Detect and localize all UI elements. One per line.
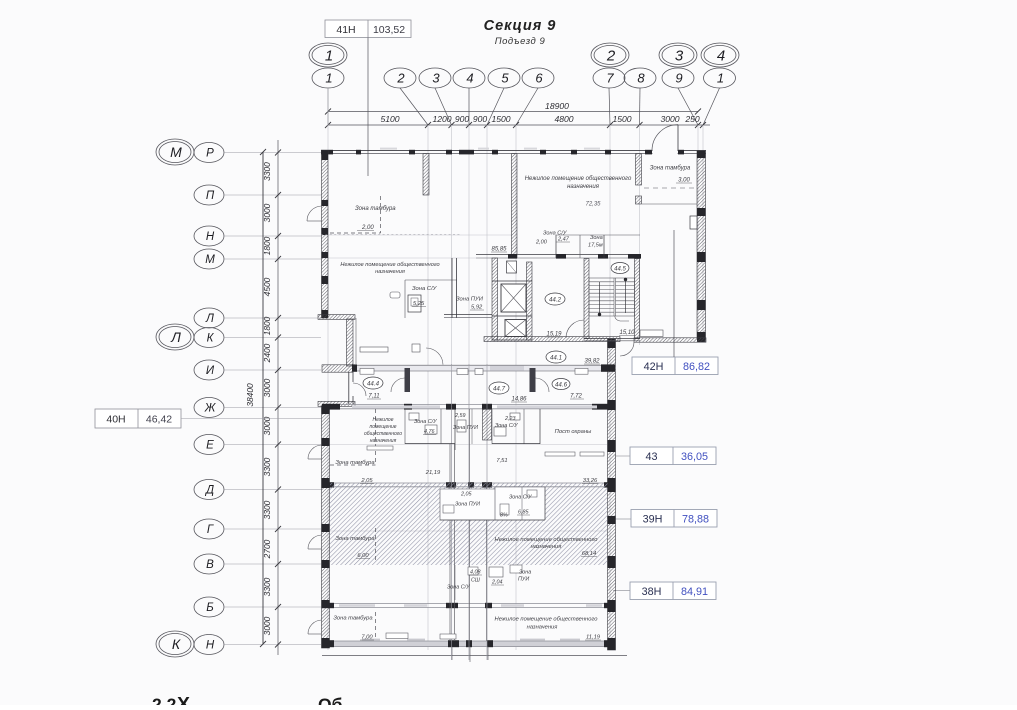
leader axis В <box>224 563 321 565</box>
svg-text:Зона С/У: Зона С/У <box>414 419 437 425</box>
axis bubble Ж <box>194 398 224 418</box>
room table 43 36,05 <box>630 447 716 465</box>
leader axis Е <box>224 444 321 446</box>
svg-text:2,23: 2,23 <box>504 416 516 422</box>
interior vertical walls lower half <box>449 444 451 641</box>
svg-text:Секция 9: Секция 9 <box>484 18 557 34</box>
leader axis 5 <box>487 88 504 125</box>
svg-text:назначения: назначения <box>370 438 397 444</box>
entrance door arcs lower left <box>308 445 322 459</box>
svg-text:86,82: 86,82 <box>683 361 710 373</box>
dashed zone line right tambour <box>644 187 694 189</box>
svg-text:7,11: 7,11 <box>368 394 379 400</box>
axis bubble Н <box>194 226 224 246</box>
unit 39Н wc cluster below hatch <box>454 565 456 600</box>
leader line from table 41Н into plan <box>367 38 369 177</box>
svg-text:8: 8 <box>637 71 645 86</box>
svg-text:84,91: 84,91 <box>681 586 708 598</box>
left dimension line overall <box>262 152 264 644</box>
svg-text:назначения: назначения <box>375 269 405 275</box>
svg-text:40Н: 40Н <box>106 414 125 426</box>
svg-text:11,19: 11,19 <box>586 635 601 641</box>
svg-text:6,00: 6,00 <box>357 553 369 559</box>
leader axis 1 <box>327 88 329 125</box>
ground line below bottom wall <box>322 655 627 657</box>
big axis bubble К <box>156 631 194 657</box>
svg-text:3000: 3000 <box>262 378 272 397</box>
svg-text:2,47: 2,47 <box>557 237 570 243</box>
svg-text:900: 900 <box>473 114 488 124</box>
svg-text:Нежилое помещение общественн: Нежилое помещение общественного <box>495 537 599 543</box>
faint horizontal axis lines <box>321 234 512 236</box>
svg-text:103,52: 103,52 <box>373 24 405 36</box>
radiator marks in corridor <box>360 347 388 352</box>
leader axis И <box>224 369 321 371</box>
faint vertical axis lines <box>327 88 329 650</box>
axis bubble Л <box>194 308 224 328</box>
svg-text:Пост охраны: Пост охраны <box>555 429 592 435</box>
svg-text:Об: Об <box>318 695 343 706</box>
svg-text:Л: Л <box>205 313 214 325</box>
small WC rooms upper right <box>555 235 557 258</box>
svg-text:38Н: 38Н <box>642 586 662 598</box>
room circle 44.2 <box>545 293 565 305</box>
dashed tambour zone 43 <box>375 409 377 465</box>
elevator cab 2 <box>505 320 526 337</box>
svg-text:4: 4 <box>717 47 725 64</box>
elevator cab 1 <box>501 284 526 312</box>
svg-text:Зона С/У: Зона С/У <box>495 423 518 429</box>
rooms row 44.4 / 44.7 / 44.6 <box>405 368 411 392</box>
svg-text:Нежилое помещение общественн: Нежилое помещение общественного <box>495 617 599 623</box>
leader axis Д <box>224 489 321 491</box>
sink symbol <box>390 292 400 298</box>
svg-text:39Н: 39Н <box>643 514 663 526</box>
axis bubble 2 <box>384 68 416 88</box>
svg-text:общественного: общественного <box>364 431 402 437</box>
leader axis 9 <box>678 88 698 125</box>
left wall notch (rows Л-Ж) <box>318 315 355 320</box>
svg-text:1800: 1800 <box>262 316 272 335</box>
stairs <box>584 259 589 339</box>
svg-text:ПУИ: ПУИ <box>518 577 529 583</box>
bottom wall of right section <box>634 338 706 342</box>
door arc room 44.2 <box>566 320 584 338</box>
svg-text:Зона ПУИ: Зона ПУИ <box>455 502 480 508</box>
room table 38Н 84,91 <box>630 582 716 600</box>
top dimension line overall <box>328 111 698 113</box>
svg-text:Ж: Ж <box>204 403 217 415</box>
axis bubble 9 <box>662 68 694 88</box>
svg-text:44.6: 44.6 <box>555 382 568 389</box>
entrance door left wall <box>307 206 322 221</box>
dashed tambour zone 38Н <box>375 612 377 638</box>
svg-text:Н: Н <box>206 231 215 243</box>
window sill marks on top wall <box>380 148 397 150</box>
wall between 39Н and 38Н <box>322 603 615 605</box>
svg-text:44.1: 44.1 <box>550 355 562 362</box>
svg-text:3000: 3000 <box>262 616 272 635</box>
svg-text:2400: 2400 <box>262 343 272 363</box>
svg-text:Нежилое помещение общественн: Нежилое помещение общественного <box>340 262 439 268</box>
radiator marks in hatch row <box>296 476 298 478</box>
big axis bubble 1 <box>309 43 347 67</box>
svg-text:68,14: 68,14 <box>582 551 597 557</box>
svg-text:4: 4 <box>466 71 473 86</box>
axis bubble 6 <box>522 68 554 88</box>
axis bubble Н <box>194 635 224 655</box>
svg-text:5,92: 5,92 <box>471 305 483 311</box>
WC room left middle <box>405 279 457 281</box>
svg-text:6,85: 6,85 <box>518 510 529 516</box>
svg-text:5,25: 5,25 <box>413 301 425 307</box>
svg-text:Х: Х <box>177 694 190 706</box>
svg-text:2,05: 2,05 <box>360 478 373 484</box>
elevator shaft walls <box>492 258 498 340</box>
dashed tambour zone top left <box>380 196 382 233</box>
svg-text:3: 3 <box>432 71 440 86</box>
axis bubble 3 <box>419 68 451 88</box>
big axis bubble М <box>156 139 194 165</box>
door gap in top wall <box>653 150 678 155</box>
svg-text:Зона тамбура: Зона тамбура <box>333 616 373 622</box>
svg-text:Зона тамбура: Зона тамбура <box>335 536 375 542</box>
svg-text:2: 2 <box>396 71 405 86</box>
svg-text:4500: 4500 <box>262 277 272 296</box>
svg-text:Л: Л <box>170 329 181 345</box>
room circle 44.1 corridor <box>546 351 566 363</box>
svg-text:М: М <box>170 144 182 160</box>
tick marks top dims <box>325 122 331 128</box>
room table 39Н 78,88 <box>631 510 717 528</box>
svg-text:38400: 38400 <box>245 383 255 407</box>
left exterior wall lower <box>322 406 330 648</box>
left exterior wall upper <box>322 151 329 318</box>
svg-text:назначения: назначения <box>527 625 558 631</box>
svg-text:7,00: 7,00 <box>361 635 373 641</box>
svg-text:3000: 3000 <box>660 114 679 124</box>
axis bubble И <box>194 360 224 380</box>
svg-text:4,76: 4,76 <box>424 429 435 435</box>
radiator marks unit 43 <box>367 446 393 450</box>
leader axis Р <box>224 152 321 154</box>
svg-text:Б: Б <box>206 602 214 614</box>
svg-text:8%: 8% <box>500 513 508 519</box>
svg-text:3000: 3000 <box>262 416 272 435</box>
svg-text:назначения: назначения <box>567 184 600 190</box>
axis bubble 1 <box>704 68 736 88</box>
svg-text:44.5: 44.5 <box>614 267 626 273</box>
svg-text:Нежилое: Нежилое <box>373 417 394 423</box>
svg-text:В: В <box>206 559 214 571</box>
svg-text:3300: 3300 <box>262 457 272 476</box>
door arc top right tambour <box>652 125 678 151</box>
svg-text:7: 7 <box>606 71 614 86</box>
leader axis 2 <box>400 88 428 125</box>
big axis bubble 3 <box>659 43 697 67</box>
unit 39Н wc cluster (in hatch) <box>440 489 495 520</box>
svg-text:Р: Р <box>206 148 214 160</box>
corridor walls <box>484 337 620 342</box>
unit 43 wc cluster <box>404 409 406 444</box>
radiator right of stairs <box>640 330 663 337</box>
svg-text:2,59: 2,59 <box>454 413 466 419</box>
svg-text:Зона тамбура: Зона тамбура <box>335 460 375 466</box>
svg-text:44.4: 44.4 <box>367 381 380 388</box>
svg-text:1: 1 <box>325 71 332 86</box>
svg-text:250: 250 <box>684 114 700 124</box>
svg-text:помещение: помещение <box>369 424 396 430</box>
svg-text:15,10: 15,10 <box>619 330 635 336</box>
axis bubble Б <box>194 597 224 617</box>
leader axis Н <box>224 644 321 646</box>
svg-text:44.2: 44.2 <box>549 297 562 304</box>
dashed tambour zone 39Н <box>375 528 377 560</box>
svg-text:СШ: СШ <box>471 578 480 584</box>
radiator on right wall <box>690 216 697 229</box>
svg-text:назначения: назначения <box>531 544 562 550</box>
svg-text:Зона С/У: Зона С/У <box>447 585 470 591</box>
svg-text:Подъезд 9: Подъезд 9 <box>495 36 546 47</box>
svg-text:Зона тамбура: Зона тамбура <box>355 206 396 212</box>
pier axis2 <box>423 154 429 195</box>
axis bubble 4 <box>453 68 485 88</box>
svg-text:14,86: 14,86 <box>511 397 527 403</box>
stair room circle 44.5 <box>611 263 629 274</box>
radiator marks 38Н <box>309 628 311 630</box>
axis bubble М <box>194 249 224 269</box>
radiator boxes on corridor wall <box>360 368 374 374</box>
svg-text:44.7: 44.7 <box>493 386 506 393</box>
svg-text:7,72: 7,72 <box>570 394 582 400</box>
svg-text:900: 900 <box>455 114 470 124</box>
svg-text:3,00: 3,00 <box>678 178 690 184</box>
svg-text:Зона тамбура: Зона тамбура <box>650 166 691 172</box>
svg-text:17,5м: 17,5м <box>588 243 603 249</box>
tick marks left dims <box>275 150 281 156</box>
svg-text:7,51: 7,51 <box>496 458 507 464</box>
svg-text:1500: 1500 <box>491 114 510 124</box>
bottom exterior wall <box>322 641 615 647</box>
leader line table 39Н <box>613 518 631 520</box>
leader line from table 40Н <box>181 418 321 420</box>
radiators in corridor wall gap <box>457 369 468 375</box>
svg-text:78,88: 78,88 <box>682 514 709 526</box>
svg-text:43: 43 <box>645 451 657 463</box>
leader axis М <box>224 258 321 260</box>
svg-text:3300: 3300 <box>262 162 272 181</box>
axis bubble 8 <box>624 68 656 88</box>
svg-text:18900: 18900 <box>545 101 569 111</box>
leader axis П <box>224 194 321 196</box>
axis bubble Г <box>194 519 224 539</box>
big axis bubble Л <box>156 324 194 350</box>
svg-text:1200: 1200 <box>432 114 451 124</box>
right exterior wall upper section <box>697 151 706 339</box>
svg-text:39,82: 39,82 <box>584 359 600 365</box>
room table 42Н 86,82 <box>632 357 718 375</box>
big axis bubble 2 <box>591 43 629 67</box>
svg-text:41Н: 41Н <box>336 24 355 36</box>
svg-text:33,26: 33,26 <box>583 478 598 484</box>
svg-text:36,05: 36,05 <box>681 451 708 463</box>
corridor left zone line <box>355 318 357 364</box>
svg-text:Зона С/У: Зона С/У <box>412 286 438 292</box>
svg-text:П: П <box>206 190 215 202</box>
svg-text:3000: 3000 <box>262 203 272 222</box>
leader line table 43 <box>615 455 630 457</box>
svg-text:Зона ПУИ: Зона ПУИ <box>456 297 484 303</box>
leader axis 8 <box>639 88 642 125</box>
leader axis 4 <box>468 88 470 125</box>
leader axis Л <box>224 317 321 319</box>
leader axis Б <box>224 606 321 608</box>
stair room bottom wall <box>584 337 640 339</box>
svg-text:Зона: Зона <box>519 570 531 576</box>
svg-text:Д: Д <box>204 485 214 497</box>
leader line table 42Н <box>673 230 675 357</box>
svg-text:Н: Н <box>206 640 215 652</box>
small duct above elevator <box>507 261 517 273</box>
leader axis 6 <box>516 88 538 125</box>
axis bubble 5 <box>488 68 520 88</box>
svg-text:85,85: 85,85 <box>491 247 507 253</box>
svg-text:46,42: 46,42 <box>146 414 172 426</box>
svg-text:15,19: 15,19 <box>546 332 562 338</box>
svg-text:Зона С/У: Зона С/У <box>509 495 532 501</box>
svg-text:3300: 3300 <box>262 500 272 519</box>
svg-text:2.2: 2.2 <box>152 695 177 706</box>
svg-text:1500: 1500 <box>612 114 631 124</box>
wall between 43 and 39Н <box>322 482 615 484</box>
leader axis Г <box>224 528 321 530</box>
lower section top wall (row Ж) <box>322 404 615 406</box>
axis bubble 7 <box>593 68 625 88</box>
leader axis 1 <box>703 88 720 125</box>
svg-text:21,19: 21,19 <box>425 470 441 476</box>
horizontal wall y256 <box>476 254 640 256</box>
svg-text:2700: 2700 <box>262 539 272 559</box>
right exterior wall lower section <box>608 339 616 650</box>
svg-text:72,35: 72,35 <box>585 202 601 208</box>
darker axis segments through lower rooms <box>451 364 453 660</box>
axis bubble К <box>194 328 224 348</box>
svg-text:2,04: 2,04 <box>491 580 503 586</box>
corridor door arcs <box>426 348 443 365</box>
svg-text:3: 3 <box>675 47 684 64</box>
svg-text:Г: Г <box>207 524 214 536</box>
svg-text:9: 9 <box>675 71 682 86</box>
svg-text:1: 1 <box>325 47 333 64</box>
svg-text:4800: 4800 <box>554 114 573 124</box>
svg-text:К: К <box>172 636 181 652</box>
svg-text:И: И <box>206 365 215 377</box>
svg-text:4,08: 4,08 <box>470 570 481 576</box>
room table 40Н 46,42 <box>95 409 181 428</box>
door arc room 44.4 <box>391 378 405 392</box>
svg-text:42Н: 42Н <box>644 361 664 373</box>
top exterior wall <box>321 150 706 152</box>
axis bubble П <box>194 185 224 205</box>
svg-text:3300: 3300 <box>262 577 272 596</box>
svg-text:1: 1 <box>717 71 724 86</box>
svg-text:5: 5 <box>501 71 509 86</box>
leader axis Ж <box>224 407 321 409</box>
svg-text:6: 6 <box>535 71 543 86</box>
axis bubble Р <box>194 143 224 163</box>
svg-text:Зона ПУИ: Зона ПУИ <box>453 425 478 431</box>
svg-text:2,00: 2,00 <box>361 225 374 231</box>
svg-text:2,00: 2,00 <box>535 240 548 246</box>
room table 41Н 103,52 <box>325 20 411 38</box>
axis bubble Д <box>194 480 224 500</box>
wall right tambour with door <box>636 154 642 185</box>
svg-text:5100: 5100 <box>380 114 399 124</box>
axis bubble Е <box>194 435 224 455</box>
door arc room 44.6 <box>536 378 550 392</box>
svg-text:М: М <box>205 254 215 266</box>
hatched area unit 39Н <box>330 483 608 565</box>
svg-text:Е: Е <box>206 440 214 452</box>
wall axis6 vertical <box>512 154 518 258</box>
svg-text:Зона: Зона <box>590 235 603 241</box>
leader axis 3 <box>435 88 452 125</box>
svg-text:Нежилое помещение общественн: Нежилое помещение общественного <box>525 176 632 182</box>
door arc into room 44.4 from left <box>353 383 366 396</box>
leader axis Н <box>224 235 321 237</box>
leader line table 38Н <box>613 590 630 592</box>
svg-text:1800: 1800 <box>262 236 272 255</box>
big axis bubble 4 <box>701 43 739 67</box>
leader axis К <box>224 337 321 339</box>
svg-text:2,05: 2,05 <box>460 492 472 498</box>
axis bubble 1 <box>312 68 344 88</box>
axis bubble В <box>194 554 224 574</box>
leader axis 7 <box>609 88 610 125</box>
svg-text:2: 2 <box>606 47 616 64</box>
